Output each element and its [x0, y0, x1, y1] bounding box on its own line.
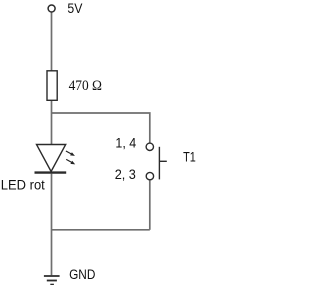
- wire bottom branch back to rail: [52, 229, 150, 231]
- LED light emission arrow 1: [66, 151, 75, 156]
- svg-text:5V: 5V: [67, 1, 82, 16]
- wire from resistor to LED anode: [51, 100, 53, 144]
- LED D1 triangle: [37, 145, 66, 172]
- resistor 470 ohm body: [47, 71, 57, 101]
- LED light emission arrow 2: [66, 159, 75, 164]
- switch T1 actuator bar: [158, 147, 160, 180]
- svg-text:1, 4: 1, 4: [115, 135, 136, 150]
- svg-text:LED rot: LED rot: [1, 178, 45, 193]
- svg-text:470 Ω: 470 Ω: [69, 78, 103, 94]
- switch T1 contact 2,3: [146, 172, 153, 179]
- wire branch to switch T1 (top horizontal): [52, 113, 150, 143]
- wire from switch bottom contact down: [149, 180, 151, 230]
- ground symbol lines: [44, 275, 60, 277]
- svg-text:GND: GND: [69, 267, 96, 282]
- LED cathode bar: [35, 171, 67, 173]
- 5V terminal circle: [48, 5, 55, 12]
- wire from LED cathode to ground: [51, 174, 53, 276]
- svg-text:T1: T1: [183, 150, 196, 165]
- wire from 5V terminal to resistor R1: [51, 12, 53, 71]
- switch T1 actuator tick: [159, 160, 166, 162]
- svg-text:2, 3: 2, 3: [115, 167, 136, 182]
- switch T1 contact 1,4: [146, 143, 153, 150]
